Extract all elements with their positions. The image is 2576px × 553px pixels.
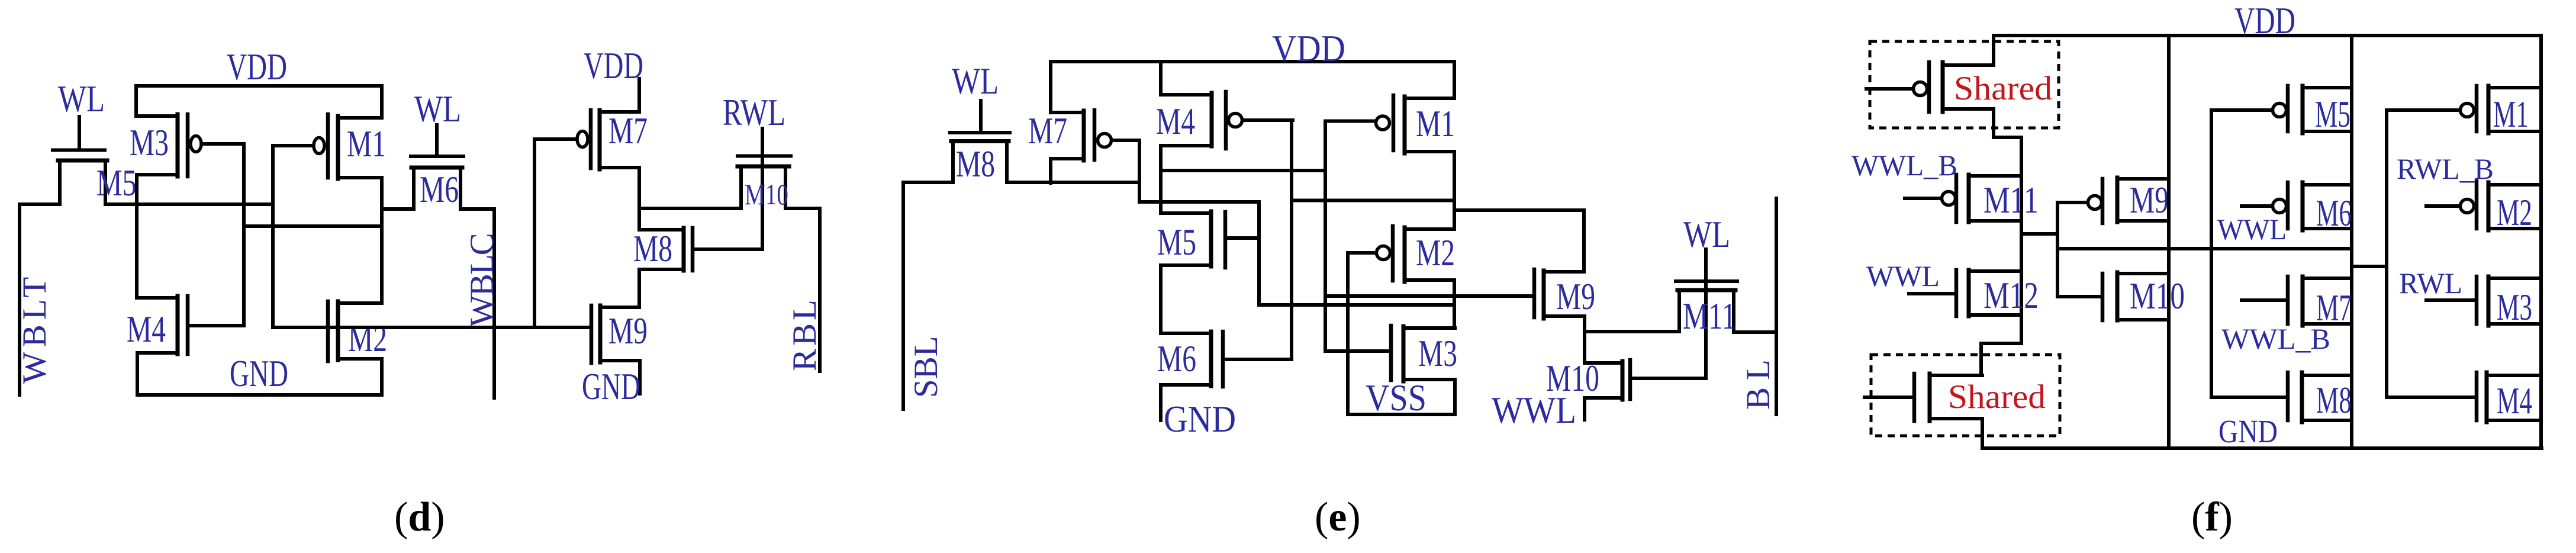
transistor M4 (NMOS, panel f) bbox=[2387, 372, 2541, 422]
transistor M8 (NMOS, panel f) bbox=[2211, 372, 2352, 422]
svg-text:M7: M7 bbox=[608, 110, 648, 152]
svg-text:M11: M11 bbox=[1683, 295, 1736, 337]
wire node QB horizontal bbox=[244, 224, 382, 228]
svg-text:BL: BL bbox=[1740, 352, 1777, 410]
transistor M7 (PMOS, panel e) bbox=[1051, 110, 1139, 160]
label M12 bbox=[1983, 275, 2039, 316]
label GND (read buffer) bbox=[582, 366, 640, 407]
label M8 (panel e) bbox=[956, 143, 995, 185]
label M11 (panel f) bbox=[1983, 179, 2039, 221]
transistor M9 (NMOS read buffer) bbox=[591, 306, 640, 363]
wire Shared PMOS drain jog bbox=[1994, 109, 2021, 137]
transistor M3 (NMOS, panel f) bbox=[2426, 276, 2541, 326]
wire M7 drain to M10 bbox=[639, 207, 739, 210]
svg-text:VDD: VDD bbox=[584, 45, 643, 86]
svg-text:Shared: Shared bbox=[1954, 70, 2052, 107]
svg-text:M8: M8 bbox=[2316, 380, 2352, 421]
wire VDD to Shared PMOS bbox=[1992, 36, 1995, 65]
wire WBLT to M5 bbox=[20, 202, 60, 206]
wire M7 drain column bbox=[637, 168, 641, 230]
svg-text:M4: M4 bbox=[1156, 101, 1195, 142]
label WWL (M6 gate) bbox=[2217, 213, 2287, 246]
svg-text:M1: M1 bbox=[1416, 103, 1455, 144]
wire SBL to M8 bbox=[903, 181, 953, 184]
wire node A to M9 bbox=[1454, 208, 1584, 212]
label M7 (panel f) bbox=[2316, 287, 2352, 329]
transistor M9 (NMOS, panel e) bbox=[1534, 269, 1585, 319]
label M2 (panel e) bbox=[1416, 232, 1455, 274]
svg-text:WWL: WWL bbox=[2217, 213, 2287, 246]
net VDD rail (panel e) bbox=[1051, 60, 1454, 63]
transistor M7 (NMOS, panel f) bbox=[2242, 276, 2352, 326]
label M10 (panel f) bbox=[2130, 275, 2185, 317]
bubble M1 gate bbox=[314, 138, 324, 154]
label M5 (panel f) bbox=[2315, 94, 2350, 135]
wire M2 to GND bbox=[380, 359, 384, 395]
wire M1-M4 column bbox=[2539, 36, 2543, 448]
label VDD (panel d) bbox=[227, 46, 287, 88]
label M7 (panel e) bbox=[1028, 110, 1067, 152]
svg-text:M4: M4 bbox=[2497, 380, 2532, 422]
svg-text:WBLC: WBLC bbox=[463, 234, 501, 327]
node WL label (M5 gate, panel d) bbox=[58, 78, 105, 120]
svg-text:M6: M6 bbox=[420, 169, 459, 210]
net WBLC vertical bbox=[492, 209, 496, 398]
svg-text:RBL: RBL bbox=[786, 297, 823, 371]
svg-text:GND: GND bbox=[230, 353, 288, 394]
transistor M4 (NMOS, inverter 1) bbox=[137, 296, 244, 354]
svg-text:GND: GND bbox=[582, 366, 640, 407]
label VDD (read buffer) bbox=[584, 45, 643, 86]
bubble M7 gate bbox=[577, 131, 588, 147]
label M1 bbox=[347, 123, 386, 165]
wire M11/M12 node to M9/M10 gates bbox=[2021, 202, 2057, 297]
bubble M6 gate (panel f) bbox=[2273, 200, 2287, 213]
svg-text:M8: M8 bbox=[633, 228, 672, 269]
transistor M1 (PMOS, inverter 2) bbox=[273, 114, 382, 179]
label WBLC bbox=[463, 234, 501, 327]
label WWL_B (M7 gate) bbox=[2221, 322, 2330, 355]
bubble M2 gate (panel f) bbox=[2461, 200, 2474, 213]
svg-text:M5: M5 bbox=[1157, 221, 1196, 263]
transistor M11 (access NMOS, panel e) bbox=[1676, 249, 1737, 378]
label GND (panel f) bbox=[2218, 413, 2278, 449]
label M3 (panel f) bbox=[2497, 287, 2532, 328]
wire M1 gate vertical long bbox=[1324, 121, 1327, 352]
transistor M2 (PMOS, panel f) bbox=[2426, 181, 2541, 230]
label VDD (panel f) bbox=[2234, 0, 2295, 41]
wire M8 to M9 column bbox=[637, 269, 641, 307]
label M10 bbox=[745, 178, 788, 211]
label M1 (panel e) bbox=[1416, 103, 1455, 144]
svg-text:(e): (e) bbox=[1315, 494, 1361, 540]
wire M9/M10 node to M11 bbox=[1585, 330, 1679, 333]
transistor M2 (NMOS, inverter 2) bbox=[273, 301, 382, 361]
svg-text:M2: M2 bbox=[1416, 232, 1455, 274]
svg-text:M10: M10 bbox=[745, 178, 788, 211]
transistor M3 (NMOS, panel e) bbox=[1391, 326, 1455, 381]
label GND (panel d) bbox=[230, 353, 288, 394]
svg-text:VDD: VDD bbox=[2234, 0, 2295, 41]
svg-text:M5: M5 bbox=[96, 162, 137, 204]
label M5 (panel e) bbox=[1157, 221, 1196, 263]
caption (f) bbox=[2191, 494, 2233, 540]
bubble M1 gate (panel f) bbox=[2461, 104, 2474, 117]
svg-text:M2: M2 bbox=[348, 318, 387, 359]
wire M7 gate vertical bbox=[1138, 140, 1141, 202]
label M6 (panel e) bbox=[1157, 338, 1196, 380]
wire M9/M10 column (panel f) bbox=[2167, 36, 2171, 448]
svg-text:WWL_B: WWL_B bbox=[1851, 149, 1957, 182]
svg-text:WL: WL bbox=[58, 78, 105, 120]
transistor M3 (PMOS, inverter 1) bbox=[137, 114, 244, 176]
wire VDD to M7 (panel e) bbox=[1049, 62, 1052, 112]
label M5 bbox=[96, 162, 137, 204]
wire M11/M12 column bbox=[2020, 137, 2023, 343]
wire inverter2 output column bbox=[380, 178, 384, 303]
wire M3 to VSS column bbox=[1453, 380, 1457, 414]
wire M1 gate row to M9 gate bbox=[1325, 294, 1532, 298]
wire M4 drain to M1 gate node bbox=[1162, 169, 1325, 172]
node WL label (M6 gate) bbox=[414, 88, 461, 130]
transistor M11 (PMOS, panel f) bbox=[1905, 175, 2021, 222]
label VSS bbox=[1366, 377, 1427, 419]
wire M7 gate to M5 gate bbox=[1139, 200, 1259, 204]
wire M4 gate to M1 drain bbox=[1292, 199, 1454, 202]
wire M6 to WBLC bbox=[461, 207, 494, 211]
svg-text:M1: M1 bbox=[2493, 94, 2529, 135]
transistor M10 (NMOS, panel e) bbox=[1585, 360, 1706, 400]
svg-text:M5: M5 bbox=[2315, 94, 2350, 135]
net SBL vertical bbox=[901, 182, 905, 409]
transistor M1 (PMOS, panel f) bbox=[2387, 86, 2541, 133]
net GND rail (panel f) bbox=[1982, 446, 2542, 450]
wire node Q horizontal bbox=[105, 202, 273, 206]
svg-text:M6: M6 bbox=[2316, 192, 2352, 234]
label BL bbox=[1740, 352, 1777, 410]
transistor M8 (NMOS keeper) bbox=[639, 228, 762, 271]
label M1 (panel f) bbox=[2493, 94, 2529, 135]
caption (e) bbox=[1315, 494, 1361, 540]
label M6 (panel f) bbox=[2316, 192, 2352, 234]
wire M2 gate vertical to VSS bbox=[1346, 253, 1350, 414]
svg-text:(f): (f) bbox=[2191, 494, 2233, 540]
net RBL vertical bbox=[818, 208, 822, 371]
bubble Shared PMOS gate bbox=[1914, 82, 1927, 96]
label M8 bbox=[633, 228, 672, 269]
net VDD rail (panel d) bbox=[136, 86, 382, 118]
wire M6 to node QB column bbox=[382, 207, 414, 211]
svg-text:VSS: VSS bbox=[1366, 377, 1427, 419]
wire M4 gate vertical long bbox=[1290, 120, 1293, 359]
bubble M11 gate (panel f) bbox=[1942, 192, 1956, 205]
bubble M7 gate (panel e) bbox=[1098, 134, 1112, 147]
bubble M5 gate (panel f) bbox=[2273, 104, 2287, 117]
caption (d) bbox=[394, 494, 445, 540]
transistor M8 (access, panel e) bbox=[950, 101, 1010, 182]
label WBLT bbox=[16, 272, 53, 384]
wire VDD to M7 bbox=[637, 79, 641, 112]
svg-text:Shared: Shared bbox=[1948, 378, 2046, 416]
label GND (panel e) bbox=[1164, 398, 1236, 440]
svg-text:M9: M9 bbox=[608, 310, 648, 352]
transistor Shared (NMOS, bottom box) bbox=[1865, 374, 1982, 421]
svg-text:M8: M8 bbox=[956, 143, 995, 185]
svg-text:VDD: VDD bbox=[1272, 28, 1345, 69]
svg-text:RWL_B: RWL_B bbox=[2397, 152, 2494, 185]
svg-text:VDD: VDD bbox=[227, 46, 287, 88]
label M4 (panel e) bbox=[1156, 101, 1195, 142]
transistor M9 (PMOS, panel f) bbox=[2057, 178, 2169, 223]
bubble M2 gate bbox=[1377, 246, 1390, 260]
wire node A vertical bbox=[1582, 210, 1586, 272]
transistor M6 (PMOS, panel f) bbox=[2242, 182, 2352, 230]
wire M2 drain column bbox=[1453, 280, 1456, 328]
svg-text:WWL: WWL bbox=[1866, 259, 1940, 292]
wire VDD to M4 bbox=[1159, 62, 1163, 95]
wire M3/M4 gate column (cross-couple) bbox=[242, 144, 246, 326]
svg-text:M4: M4 bbox=[127, 308, 166, 350]
wire M7 gate column bbox=[533, 139, 536, 327]
label M4 bbox=[127, 308, 166, 350]
wire M9 to M10 column bbox=[1583, 316, 1586, 363]
label M3 (panel e) bbox=[1418, 333, 1457, 374]
svg-text:M10: M10 bbox=[2130, 275, 2185, 317]
transistor M2 (PMOS, panel e) bbox=[1348, 226, 1454, 282]
wire M1/M4 gate vertical bbox=[2385, 110, 2388, 397]
wire VDD to M1 bbox=[1453, 62, 1456, 98]
svg-text:M11: M11 bbox=[1983, 179, 2039, 221]
svg-text:M9: M9 bbox=[1556, 276, 1595, 317]
label RWL bbox=[723, 92, 785, 133]
node WL label (M8 gate, panel e) bbox=[952, 60, 999, 102]
svg-text:M7: M7 bbox=[1028, 110, 1067, 152]
label RWL (M3 gate) bbox=[2399, 266, 2462, 300]
label RWL_B (M2 gate) bbox=[2397, 152, 2494, 185]
svg-text:(d): (d) bbox=[394, 494, 445, 540]
bubble M3 gate bbox=[191, 136, 201, 152]
wire M12 to shared NMOS jog bbox=[1981, 343, 2021, 375]
net VDD rail (panel f) bbox=[1994, 34, 2539, 37]
label M4 (panel f) bbox=[2497, 380, 2532, 422]
wire M11 to BL bbox=[1734, 330, 1776, 334]
svg-text:M3: M3 bbox=[130, 122, 169, 163]
transistor M4 (PMOS, panel e) bbox=[1161, 92, 1293, 149]
transistor M12 (NMOS, panel f) bbox=[1909, 270, 2021, 316]
wire M1 drain column bbox=[1453, 152, 1456, 229]
bubble M4 gate bbox=[1229, 114, 1242, 127]
net BL vertical bbox=[1775, 198, 1778, 414]
bubble M9 gate (panel f) bbox=[2088, 196, 2102, 210]
net VSS rail bbox=[1348, 413, 1455, 416]
wire M5 to M6 column bbox=[1159, 265, 1163, 333]
label RBL bbox=[786, 297, 823, 371]
net WBLT vertical bbox=[18, 204, 21, 395]
transistor Shared (PMOS, top box) bbox=[1866, 62, 1994, 112]
svg-text:M6: M6 bbox=[1157, 338, 1196, 380]
transistor M5 (NMOS, panel e) bbox=[1161, 211, 1259, 268]
label WWL_B (M11 gate) bbox=[1851, 149, 1957, 182]
label VDD (panel e) bbox=[1272, 28, 1345, 69]
shared cell box (bottom, dashed) bbox=[1871, 355, 2060, 436]
wire inverter1 output column bbox=[135, 175, 139, 298]
svg-text:M3: M3 bbox=[2497, 287, 2532, 328]
label M6 bbox=[420, 169, 459, 210]
svg-text:M9: M9 bbox=[2130, 179, 2169, 221]
label SBL bbox=[907, 336, 945, 398]
wire M5-M8 column bbox=[2350, 36, 2353, 448]
wire M1/M2 gate node to M7/M9 gates bbox=[273, 326, 590, 329]
svg-text:M1: M1 bbox=[347, 123, 386, 165]
wire M3 gate lead bbox=[1325, 349, 1391, 353]
svg-text:WWL_B: WWL_B bbox=[2221, 322, 2330, 355]
label M9 (panel e) bbox=[1556, 276, 1595, 317]
svg-text:M7: M7 bbox=[2316, 287, 2352, 329]
svg-text:M3: M3 bbox=[1418, 333, 1457, 374]
transistor M10 (NMOS, panel f) bbox=[2057, 272, 2169, 320]
label M3 bbox=[130, 122, 169, 163]
shared cell box (top, dashed) bbox=[1870, 41, 2059, 128]
label M7 bbox=[608, 110, 648, 152]
wire M10 to WWL stub bbox=[1583, 398, 1586, 420]
wire M4 drain column bbox=[1159, 146, 1163, 213]
label WWL (panel e) bbox=[1492, 390, 1576, 431]
transistor M10 (RWL access NMOS) bbox=[738, 128, 791, 249]
net GND rail (panel d) bbox=[137, 393, 382, 397]
transistor M5 (access NMOS, panel d) bbox=[53, 117, 107, 204]
wire M6 to GND stub bbox=[1159, 385, 1163, 420]
wire node B row to M2 drain bbox=[1259, 303, 1454, 307]
label M2 (panel f) bbox=[2497, 192, 2532, 233]
transistor M6 (access NMOS) bbox=[411, 125, 463, 208]
label M9 bbox=[608, 310, 648, 352]
svg-text:RWL: RWL bbox=[723, 92, 785, 133]
label M10 (panel e) bbox=[1546, 358, 1599, 399]
svg-text:WWL: WWL bbox=[1492, 390, 1576, 431]
wire M8 to M7 node bbox=[1007, 181, 1139, 184]
wire storage node row (panel f) bbox=[2057, 247, 2352, 250]
transistor M1 (PMOS, panel e) bbox=[1325, 95, 1454, 153]
svg-text:GND: GND bbox=[1164, 398, 1236, 440]
svg-text:M2: M2 bbox=[2497, 192, 2532, 233]
wire M7 drain column (panel e) bbox=[1049, 159, 1052, 183]
wire M5 gate vertical bbox=[1257, 202, 1261, 305]
wire Shared NMOS to GND bbox=[1981, 419, 1984, 448]
svg-text:GND: GND bbox=[2218, 413, 2278, 449]
svg-text:WL: WL bbox=[952, 60, 999, 102]
label Shared (top, red) bbox=[1954, 70, 2052, 107]
wire M1/M2 gate column bbox=[271, 146, 275, 327]
bubble M1 gate (panel e) bbox=[1376, 116, 1390, 130]
wire M10 to RBL bbox=[785, 207, 820, 210]
svg-text:WBLT: WBLT bbox=[16, 272, 53, 384]
node WL label (M11 gate) bbox=[1683, 214, 1730, 255]
transistor M5 (PMOS, panel f) bbox=[2211, 86, 2352, 133]
wire M9 to GND stub bbox=[638, 361, 642, 394]
label Shared (bottom, red) bbox=[1948, 378, 2046, 416]
svg-text:M12: M12 bbox=[1983, 275, 2039, 316]
svg-text:RWL: RWL bbox=[2399, 266, 2462, 300]
label WWL (M12 gate) bbox=[1866, 259, 1940, 292]
label M2 bbox=[348, 318, 387, 359]
label M11 (panel e) bbox=[1683, 295, 1736, 337]
svg-text:SBL: SBL bbox=[907, 336, 945, 398]
transistor M7 (PMOS read buffer) bbox=[534, 110, 639, 169]
transistor M6 (NMOS, panel e) bbox=[1161, 332, 1291, 387]
wire M4 to GND bbox=[136, 353, 139, 395]
wire M5/M8 gate vertical bbox=[2210, 110, 2213, 397]
label M8 (panel f) bbox=[2316, 380, 2352, 421]
wire column jumper bbox=[2352, 265, 2387, 268]
label M9 (panel f) bbox=[2130, 179, 2169, 221]
